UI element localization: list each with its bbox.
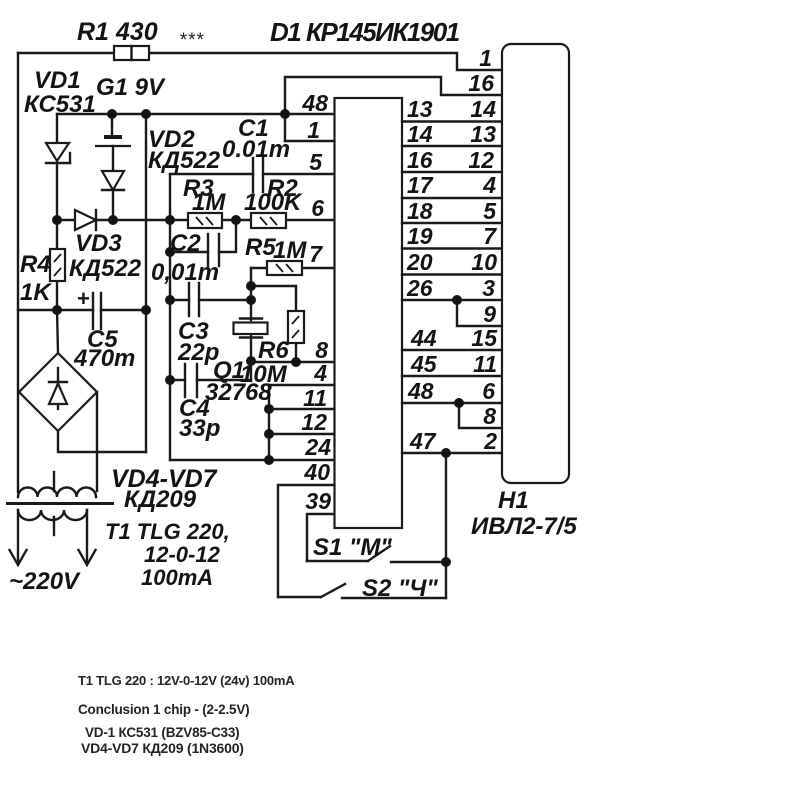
svg-text:7: 7	[483, 223, 497, 249]
wire R5 left corner down crystal rail	[251, 268, 252, 320]
svg-text:1: 1	[479, 45, 492, 71]
svg-text:11: 11	[473, 351, 497, 377]
svg-text:19: 19	[407, 223, 433, 249]
svg-text:18: 18	[407, 198, 433, 224]
transformer T1 core	[6, 502, 114, 505]
svg-text:45: 45	[410, 351, 438, 377]
wire VD1 lower lead	[56, 163, 58, 220]
svg-text:48: 48	[301, 90, 328, 116]
zener diode VD1	[46, 143, 70, 163]
wire R2 to IC pin 6	[286, 219, 334, 221]
wire row IC17 to H4	[402, 197, 501, 199]
wire row IC45 to H11	[402, 375, 501, 377]
wire VD3 row y220	[57, 219, 188, 221]
wire crystal bottom lead	[250, 336, 252, 381]
svg-text:VD1: VD1	[34, 67, 81, 94]
wire battery branch lead	[111, 114, 113, 137]
resistor R1	[114, 46, 149, 60]
wire R6 top branch	[251, 286, 296, 311]
svg-text:12: 12	[468, 147, 494, 173]
capacitor C5	[93, 293, 101, 329]
wire C3 right lead	[199, 299, 251, 301]
svg-text:~220V: ~220V	[9, 568, 81, 595]
wire left outer frame	[17, 53, 19, 492]
wire crystal node to IC pin 8	[251, 361, 334, 363]
wire row IC13 to H14	[402, 120, 501, 122]
svg-text:VD4-VD7 КД209 (1N3600): VD4-VD7 КД209 (1N3600)	[81, 740, 244, 756]
svg-text:***: ***	[179, 30, 204, 51]
svg-text:48: 48	[407, 378, 434, 404]
wire C3 left lead	[170, 299, 189, 301]
bridge rectifier VD4-VD7	[19, 353, 97, 431]
svg-text:3: 3	[482, 275, 495, 301]
wire row IC48 to H6	[402, 402, 501, 404]
wire row IC14 to H13	[402, 145, 501, 147]
resistor R3	[188, 213, 222, 228]
transformer T1 secondary winding	[18, 472, 96, 497]
wire C1 row to IC pin 5	[170, 173, 253, 175]
resistor R4	[50, 249, 65, 281]
wire row IC44 to H15	[402, 349, 501, 351]
svg-text:КД522: КД522	[148, 147, 221, 174]
mains lead right with arrow	[79, 510, 96, 565]
wire R3 to R2	[222, 219, 251, 221]
svg-text:КД209: КД209	[124, 486, 197, 513]
wire IC pin 24 common rail	[170, 459, 334, 461]
wire S1 left contact	[307, 560, 368, 562]
wire bridge right corner down to winding	[96, 392, 98, 491]
svg-text:11: 11	[303, 385, 327, 411]
svg-text:12: 12	[301, 409, 327, 435]
svg-text:Conclusion 1 chip - (2-2.5V): Conclusion 1 chip - (2-2.5V)	[78, 702, 249, 717]
wire IC pin 1	[285, 140, 334, 142]
svg-text:47: 47	[409, 428, 437, 454]
svg-text:100K: 100K	[244, 189, 303, 216]
svg-text:44: 44	[410, 325, 437, 351]
svg-text:1M: 1M	[192, 189, 226, 216]
wire C5 row right	[101, 309, 146, 311]
svg-text:R1 430: R1 430	[77, 18, 158, 46]
svg-text:16: 16	[468, 70, 494, 96]
svg-text:6: 6	[311, 195, 324, 221]
capacitor C2	[208, 234, 219, 266]
wire battery to VD2	[112, 146, 114, 171]
svg-text:+: +	[77, 286, 90, 311]
svg-text:13: 13	[407, 96, 433, 122]
svg-text:14: 14	[470, 96, 496, 122]
svg-text:D1 КР145ИК1901: D1 КР145ИК1901	[270, 17, 460, 47]
wire pin 48 junction to display pin 16	[285, 77, 501, 141]
wire switch vertical to pin 47 node	[445, 453, 447, 598]
wire row IC16 to H12	[402, 171, 501, 173]
svg-text:5: 5	[483, 198, 497, 224]
wire IC pin 11	[269, 408, 334, 410]
junction dots	[107, 109, 117, 119]
svg-text:9: 9	[483, 301, 496, 327]
svg-text:R5: R5	[245, 234, 276, 261]
wire C2 left lead	[170, 251, 208, 253]
wire R4 branch x57	[56, 220, 58, 310]
wire ladder vertical x269	[268, 385, 270, 460]
wire C2 right lead up to R3 R2 node	[219, 220, 236, 252]
svg-text:2: 2	[483, 428, 497, 454]
svg-text:14: 14	[407, 121, 433, 147]
wire R5 to IC pin 7	[302, 267, 334, 269]
wire C5 row left	[18, 309, 93, 311]
svg-text:R6: R6	[258, 337, 289, 364]
wire VD2 to node	[112, 190, 114, 220]
svg-text:S1 "M": S1 "M"	[313, 534, 392, 561]
wire branch to H9	[457, 300, 501, 326]
wire row IC19 to H7	[402, 247, 501, 249]
switch S1 lever	[368, 546, 390, 561]
svg-text:H1: H1	[498, 487, 529, 514]
svg-text:T1 TLG 220,: T1 TLG 220,	[105, 519, 230, 544]
wire top rail from left frame to R1	[18, 52, 114, 54]
wire from R1 to display pin 1	[149, 53, 501, 70]
resistor R2	[251, 213, 286, 228]
svg-text:1K: 1K	[20, 279, 52, 306]
wire VD1 branch upper lead	[56, 114, 58, 142]
svg-text:15: 15	[471, 325, 498, 351]
svg-text:1M: 1M	[273, 237, 307, 264]
svg-text:0.01m: 0.01m	[222, 136, 290, 163]
svg-text:T1 TLG 220 : 12V-0-12V (24v) 1: T1 TLG 220 : 12V-0-12V (24v) 100mA	[78, 673, 295, 688]
wire S2 right contact	[342, 597, 446, 599]
wire bridge top lead	[57, 310, 58, 353]
resistor R6	[288, 311, 304, 343]
wire IC pin 12	[269, 433, 334, 435]
mains lead left with arrow	[10, 510, 27, 565]
wire row IC26 to H3	[402, 299, 501, 301]
wire IC pin 4	[269, 384, 334, 386]
svg-text:26: 26	[406, 275, 433, 301]
svg-text:5: 5	[309, 149, 323, 175]
battery G1	[95, 137, 131, 146]
resistor R5	[267, 261, 302, 275]
capacitor C1	[253, 158, 263, 192]
wire bridge bottom to rail	[58, 431, 146, 452]
transformer T1 primary winding	[18, 510, 87, 535]
capacitor C3	[189, 283, 199, 316]
wire row IC18 to H5	[402, 222, 501, 224]
svg-text:КС531: КС531	[24, 91, 96, 118]
svg-text:100mA: 100mA	[141, 565, 213, 590]
svg-text:17: 17	[407, 172, 434, 198]
wire supply rail y114	[57, 113, 334, 115]
wire IC pin 39 to S1	[307, 514, 334, 561]
wire IC pin 40 to switch loop	[278, 485, 334, 597]
display H1 body	[502, 44, 569, 483]
svg-text:S2 "Ч": S2 "Ч"	[362, 575, 438, 602]
wire C4 right lead	[197, 379, 251, 381]
wire S1 right contact	[391, 561, 446, 563]
svg-text:R4: R4	[20, 251, 51, 278]
wire branch to H8	[459, 403, 501, 428]
wire rail x170	[169, 174, 171, 460]
svg-text:КД522: КД522	[69, 255, 142, 282]
svg-text:1: 1	[307, 117, 320, 143]
wire S2 left contact	[278, 596, 321, 598]
crystal Q1	[234, 319, 268, 338]
wire row IC47 to H2	[402, 452, 501, 454]
wire rail x146	[145, 114, 147, 452]
wire R5 lead to resistor	[251, 267, 267, 269]
switch S2 lever	[321, 584, 345, 597]
wire C4 left lead	[170, 379, 185, 381]
svg-text:G1 9V: G1 9V	[96, 74, 166, 101]
svg-text:6: 6	[482, 378, 495, 404]
svg-text:39: 39	[305, 488, 331, 514]
svg-text:10: 10	[471, 249, 497, 275]
svg-text:4: 4	[482, 172, 496, 198]
svg-text:C2: C2	[170, 230, 201, 257]
svg-text:0,01m: 0,01m	[151, 259, 219, 286]
svg-text:33p: 33p	[179, 415, 220, 442]
svg-text:ИВЛ2-7/5: ИВЛ2-7/5	[471, 513, 577, 540]
svg-text:8: 8	[483, 403, 496, 429]
diode VD3	[75, 210, 96, 230]
svg-text:7: 7	[309, 241, 323, 267]
wire C1 right lead	[263, 173, 334, 175]
diode VD2	[102, 171, 124, 190]
IC D1 body	[335, 98, 403, 528]
wire row IC20 to H10	[402, 273, 501, 275]
svg-text:13: 13	[470, 121, 496, 147]
svg-text:VD-1 КС531 (BZV85-C33): VD-1 КС531 (BZV85-C33)	[85, 725, 239, 740]
capacitor C4	[185, 364, 197, 397]
svg-text:4: 4	[313, 360, 327, 386]
svg-text:12-0-12: 12-0-12	[144, 542, 221, 567]
svg-text:16: 16	[407, 147, 433, 173]
svg-text:470m: 470m	[73, 345, 135, 372]
svg-text:10M: 10M	[240, 361, 288, 388]
svg-text:40: 40	[303, 459, 330, 485]
svg-text:24: 24	[304, 434, 331, 460]
wire R6 bottom lead	[295, 343, 297, 362]
svg-text:VD3: VD3	[75, 230, 122, 257]
svg-text:20: 20	[406, 249, 433, 275]
